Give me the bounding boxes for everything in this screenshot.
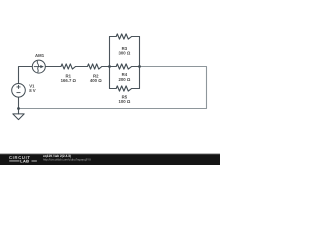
svg-text:100 Ω: 100 Ω xyxy=(118,99,130,104)
ground xyxy=(13,114,24,120)
svg-text:http://circuitlab.com/c/aka7sq: http://circuitlab.com/c/aka7sqwpq3Y0 xyxy=(43,158,91,162)
resistor R3 300 ohm xyxy=(116,34,131,39)
wire left rail xyxy=(109,37,111,89)
wire AM1 to R1 xyxy=(45,66,61,68)
wire R2 to node A xyxy=(102,66,110,68)
svg-text:8 V: 8 V xyxy=(29,88,36,93)
wire R3 branch leads xyxy=(110,36,140,38)
wire right loop xyxy=(19,67,207,109)
wire V1 bottom to ground xyxy=(18,97,20,114)
svg-text:300 Ω: 300 Ω xyxy=(118,50,130,55)
svg-text:166.7 Ω: 166.7 Ω xyxy=(61,78,77,83)
resistor R1 166.7 ohm xyxy=(61,64,76,69)
voltage source V1 8V xyxy=(12,83,36,97)
resistor R2 400 ohm xyxy=(88,64,102,69)
wire right rail xyxy=(139,37,141,89)
node GND junction dot xyxy=(17,107,20,110)
svg-text:200 Ω: 200 Ω xyxy=(118,77,130,82)
svg-text:400 Ω: 400 Ω xyxy=(90,78,102,83)
wire R1 to R2 xyxy=(76,66,88,68)
wire R4 branch leads xyxy=(110,66,140,68)
footer logo CircuitLab xyxy=(9,155,37,163)
resistor R5 100 ohm xyxy=(116,86,131,91)
ammeter AM1 xyxy=(32,53,45,73)
node B junction dot right rail xyxy=(138,65,141,68)
svg-text:LAB: LAB xyxy=(20,158,29,163)
footer text xyxy=(43,154,91,162)
wire R5 branch leads xyxy=(110,88,140,90)
footer bar xyxy=(0,152,220,155)
svg-text:AM1: AM1 xyxy=(35,53,45,58)
resistor R4 200 ohm xyxy=(116,64,131,69)
node A junction dot left rail xyxy=(108,65,111,68)
wire V1 top to AM1 xyxy=(19,67,33,84)
